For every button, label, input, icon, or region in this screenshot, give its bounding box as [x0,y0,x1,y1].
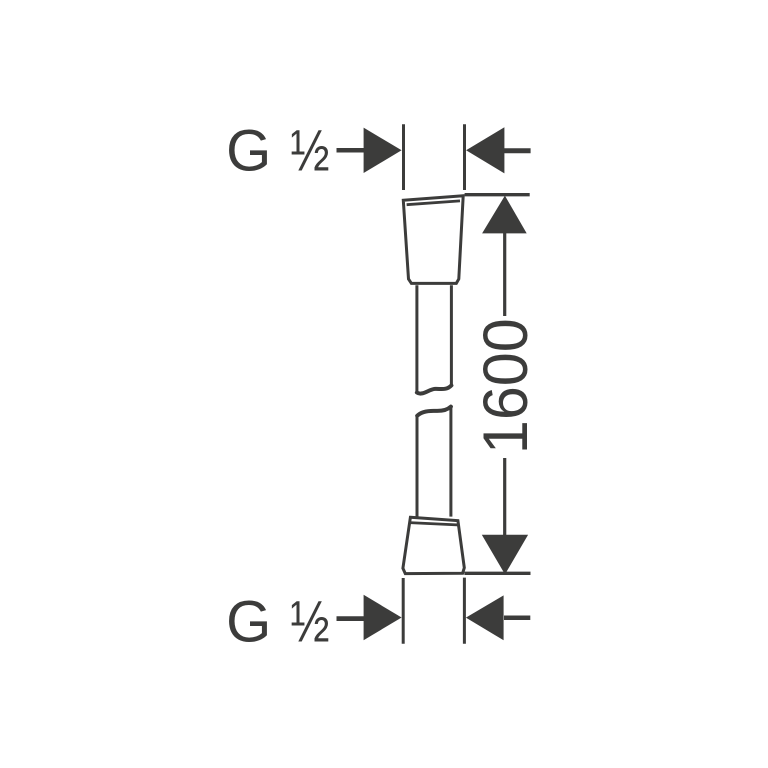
arrowhead top-left (points right) [364,128,402,173]
arrowhead 1600 top (points up) [482,196,527,234]
svg-text:1600: 1600 [471,318,541,454]
extension line bottom-left [402,578,405,644]
label G 1/2 (top) [226,119,329,184]
extension line top-right [463,124,466,190]
hose nut top (conical connector) [403,196,463,284]
svg-text:½: ½ [290,119,329,184]
hose upper segment right wall [450,285,453,385]
hose break lower edge of upper segment (wave) [417,385,452,393]
arrowhead top-right (points left) [466,127,504,173]
extension line bottom-right [463,578,466,644]
svg-text:G: G [226,119,271,184]
extension line 1600 bottom [464,572,530,575]
arrowhead bottom-right (points left) [466,595,504,640]
hose upper segment left wall [415,285,418,391]
dimension tail line bottom-right [504,616,530,621]
dimension line 1600 upper segment [503,232,506,316]
label G 1/2 (bottom) [226,590,329,655]
dimension tail line top-right [504,148,531,153]
hose nut bottom inner band line [409,523,459,525]
hose nut top inner band line [407,201,460,205]
hose nut bottom (flared connector) [403,517,464,573]
label 1600 (rotated) [471,318,541,454]
extension line top-left [402,124,405,190]
arrowhead bottom-left (points right) [364,595,402,640]
dimension line 1600 lower segment [503,458,506,536]
hose lower segment left wall [416,417,419,517]
hose lower segment right wall [449,408,452,517]
svg-text:G: G [226,590,271,655]
hose break upper edge of lower segment (wave) [417,407,451,416]
arrowhead 1600 bottom (points down) [482,535,528,575]
svg-text:½: ½ [290,590,329,655]
extension line 1600 top [465,193,530,196]
dimension leader line top-left [337,148,367,153]
dimension leader line bottom-left [337,616,367,621]
